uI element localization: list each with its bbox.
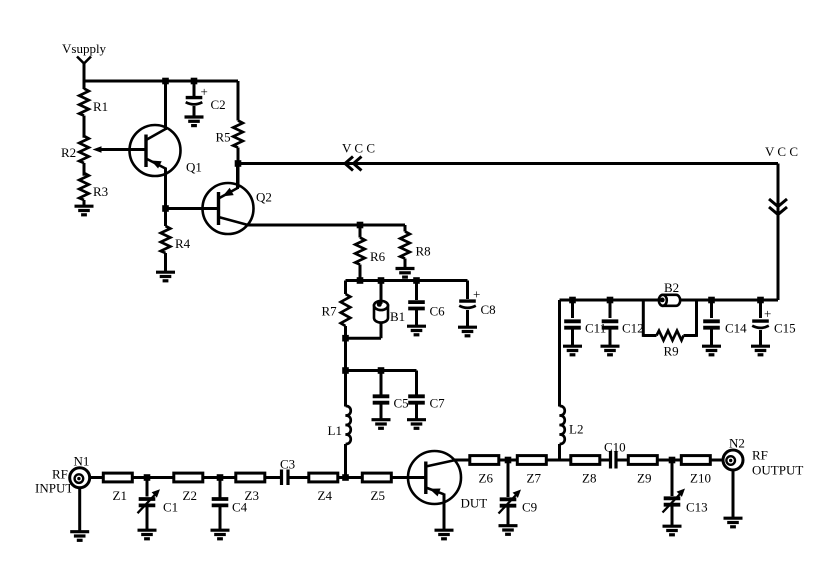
svg-text:Q2: Q2	[256, 190, 272, 205]
wire R5 to node	[237, 148, 240, 189]
wire node to Q2 base	[166, 207, 219, 210]
svg-text:R7: R7	[322, 304, 338, 319]
svg-text:DUT: DUT	[461, 496, 488, 511]
wire R1 to R2	[83, 116, 86, 138]
wire Z3 to C3	[265, 476, 282, 479]
wire R6 to rail	[359, 265, 362, 281]
junction R6 tap	[357, 222, 364, 229]
junction C13 tap	[669, 457, 676, 464]
svg-text:Vsupply: Vsupply	[62, 41, 107, 56]
svg-text:OUTPUT: OUTPUT	[752, 463, 803, 478]
Vsupply terminal symbol	[77, 57, 91, 64]
svg-text:R6: R6	[370, 249, 386, 264]
wire C11 rail	[560, 299, 779, 302]
ground under DUT	[435, 530, 454, 539]
junction B1/rail	[378, 277, 385, 284]
ground under C13	[663, 526, 682, 535]
wire VCC rail	[238, 162, 778, 165]
svg-text:Z5: Z5	[371, 488, 385, 503]
potentiometer R2	[79, 136, 89, 163]
svg-text:C9: C9	[522, 500, 537, 515]
variable capacitor C9	[507, 460, 510, 497]
svg-text:RF: RF	[752, 448, 768, 463]
wire DUT collector to Z6	[454, 459, 470, 462]
element Z1	[103, 473, 132, 482]
wire R8 to ground	[404, 259, 407, 269]
svg-text:Z2: Z2	[183, 488, 197, 503]
VCC left chevrons	[345, 157, 353, 171]
svg-text:RF: RF	[52, 467, 68, 482]
svg-text:C2: C2	[211, 97, 226, 112]
transistor Q1	[130, 125, 181, 176]
svg-text:R1: R1	[93, 99, 108, 114]
capacitor C6	[415, 281, 418, 301]
svg-text:C8: C8	[481, 302, 496, 317]
wire R3 to ground	[83, 200, 86, 206]
resistor R9 (parallel with B2)	[642, 300, 645, 337]
ground under C4	[211, 530, 230, 539]
junction R5/Q2/VCC	[235, 160, 242, 167]
wire Z1 to Z2	[133, 476, 174, 479]
wire Z2 to Z3	[203, 476, 236, 479]
ground under N1	[70, 532, 89, 541]
svg-text:B2: B2	[664, 280, 679, 295]
svg-text:Z9: Z9	[637, 471, 651, 486]
element Z5	[362, 473, 391, 482]
svg-text:+: +	[473, 287, 480, 302]
capacitor C14	[708, 297, 715, 304]
capacitor C4	[219, 478, 222, 500]
wire Z7 to Z8	[547, 459, 571, 462]
resistor R3	[79, 173, 89, 200]
junction bus/C2	[191, 78, 198, 85]
variable capacitor C13	[671, 460, 674, 496]
svg-text:R8: R8	[416, 244, 431, 259]
wire Z10 to N2	[711, 459, 724, 462]
resistor R1	[79, 89, 89, 116]
svg-text:C14: C14	[725, 321, 747, 336]
element Z6	[470, 456, 499, 465]
ground under C6	[407, 326, 426, 335]
wire C3 to Z4	[288, 476, 309, 479]
svg-text:C15: C15	[774, 321, 796, 336]
wire Z5 to DUT base	[392, 476, 426, 479]
junction C6/rail	[413, 277, 420, 284]
svg-text:Z7: Z7	[527, 471, 542, 486]
resistor R4	[164, 209, 167, 227]
wire N1 to ground	[78, 488, 81, 532]
resistor R5	[237, 81, 240, 121]
inductor L1	[344, 371, 347, 407]
junction bus/Q1 collector	[162, 78, 169, 85]
svg-text:C1: C1	[163, 500, 178, 515]
svg-text:R9: R9	[664, 344, 679, 359]
ground under N2	[724, 518, 743, 527]
wire C5/C7 rail	[346, 369, 417, 372]
svg-text:C12: C12	[622, 321, 644, 336]
wire VCC right vertical	[777, 164, 780, 301]
ground under C12	[601, 346, 620, 355]
wire R7/B1 bottom	[344, 337, 381, 340]
junction L1 bottom	[342, 474, 349, 481]
wire DUT emitter to ground	[443, 494, 446, 531]
svg-text:C10: C10	[604, 440, 626, 455]
connector N2	[723, 450, 743, 470]
wire Z6 to Z7	[499, 459, 517, 462]
ground under C7	[407, 420, 426, 429]
wire Z4 to Z5	[338, 476, 362, 479]
wire C10 to Z9	[616, 459, 628, 462]
svg-text:V C C: V C C	[342, 141, 375, 156]
svg-text:+: +	[764, 306, 771, 321]
VCC right chevrons	[769, 199, 787, 207]
resistor R8	[404, 225, 407, 232]
ground under R3	[75, 206, 94, 215]
ground under C1	[138, 530, 157, 539]
junction L1/rail	[342, 367, 349, 374]
wire Q1 emitter down	[164, 168, 167, 209]
element Z8	[571, 456, 600, 465]
wire down to C5 rail	[344, 338, 347, 370]
wire Q2 emitter up to VCC node	[236, 164, 239, 190]
capacitor C8 (polarized)	[466, 281, 469, 300]
element Z7	[517, 456, 546, 465]
element Z9	[628, 456, 657, 465]
capacitor C5	[380, 371, 383, 397]
junction C4 tap	[217, 474, 224, 481]
svg-text:+: +	[201, 84, 208, 99]
wire top supply bus	[83, 80, 238, 83]
svg-text:C3: C3	[280, 457, 295, 472]
svg-text:R5: R5	[216, 130, 231, 145]
transistor Q2	[203, 183, 254, 234]
element Z2	[174, 473, 203, 482]
capacitor C2 (polarized)	[193, 81, 196, 97]
svg-text:INPUT: INPUT	[35, 481, 73, 496]
junction C5/rail	[378, 367, 385, 374]
svg-text:C5: C5	[394, 396, 409, 411]
capacitor C7	[415, 371, 418, 397]
wire N1 to Z1	[90, 476, 103, 479]
wire Z9 to Z10	[658, 459, 682, 462]
wire R2 to R3	[83, 163, 86, 176]
wire Vsupply down to bus	[83, 63, 86, 89]
svg-text:R4: R4	[175, 236, 191, 251]
ground under C14	[702, 346, 721, 355]
R2 wiper arrow	[93, 146, 102, 153]
svg-text:L1: L1	[328, 423, 342, 438]
connector N1	[70, 468, 90, 488]
wire R4 to ground	[164, 253, 167, 272]
element Z10	[681, 456, 710, 465]
node Q1/R4/Q2 base junction	[162, 205, 169, 212]
svg-text:N1: N1	[74, 454, 90, 469]
svg-text:Z4: Z4	[318, 488, 333, 503]
wire Q2 collector line	[247, 224, 405, 227]
ground under C15	[751, 346, 770, 355]
wire N2 to ground	[732, 470, 735, 518]
capacitor C11	[569, 297, 576, 304]
capacitor C10 (series)	[609, 451, 612, 469]
svg-text:Z3: Z3	[245, 488, 259, 503]
ground under C8	[458, 327, 477, 336]
svg-text:C13: C13	[686, 500, 708, 515]
transistor DUT	[408, 451, 461, 504]
junction C9 tap	[505, 457, 512, 464]
ground under C11	[563, 346, 582, 355]
capacitor C12	[607, 297, 614, 304]
svg-text:V C C: V C C	[765, 144, 798, 159]
wire Q1 collector to bus	[164, 81, 167, 130]
inductor L2	[560, 406, 565, 444]
ground under C2	[185, 117, 204, 126]
svg-text:Q1: Q1	[186, 160, 202, 175]
svg-text:Z6: Z6	[479, 471, 494, 486]
svg-text:L2: L2	[569, 422, 583, 437]
svg-text:C6: C6	[430, 304, 446, 319]
ground under C9	[499, 526, 518, 535]
element Z4	[309, 473, 338, 482]
ground under R4	[156, 272, 175, 281]
svg-text:R3: R3	[93, 184, 108, 199]
variable capacitor C1	[146, 478, 149, 497]
junction R6/rail	[357, 277, 364, 284]
ground under C5	[372, 420, 391, 429]
junction C1 tap	[144, 474, 151, 481]
resistor R7	[344, 281, 347, 295]
wire rail left down to L2	[558, 300, 561, 407]
capacitor C3 (series)	[280, 470, 283, 486]
element Z3	[236, 473, 265, 482]
component B1 (bead)	[374, 301, 388, 323]
resistor R6	[359, 225, 362, 238]
svg-text:Z8: Z8	[582, 471, 596, 486]
wire B1 rail	[346, 279, 468, 282]
svg-text:C7: C7	[430, 396, 446, 411]
svg-text:N2: N2	[729, 436, 745, 451]
svg-text:Z10: Z10	[690, 471, 711, 486]
component B2 (bead)	[659, 295, 680, 306]
capacitor C15 (polarized)	[757, 297, 764, 304]
svg-text:R2: R2	[61, 145, 76, 160]
junction R7 bottom	[342, 335, 349, 342]
svg-text:Z1: Z1	[113, 488, 127, 503]
ground under R8	[396, 269, 415, 278]
svg-text:B1: B1	[390, 309, 405, 324]
wire Z8 to C10	[600, 459, 610, 462]
